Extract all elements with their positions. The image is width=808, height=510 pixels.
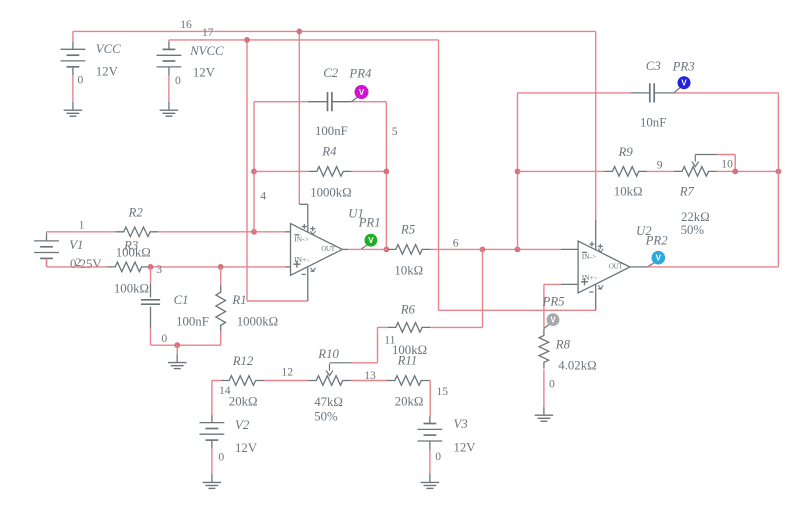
- wire C3/R9 left rail: [517, 93, 519, 250]
- probe PR5: [542, 294, 566, 328]
- wire net 2/3 (V1- / R3 / node3 / U1 IN+): [47, 266, 291, 268]
- ground below NVCC: [160, 102, 179, 117]
- svg-text:R3: R3: [123, 238, 138, 252]
- voltage source VCC 12V: [61, 42, 122, 102]
- svg-text:IN+: IN+: [582, 273, 594, 282]
- junction node3 / R1: [218, 264, 224, 270]
- svg-text:5: 5: [392, 125, 398, 138]
- svg-text:C1: C1: [174, 293, 189, 307]
- wire right rail (C3 row to U2 out): [777, 93, 779, 267]
- svg-text:12: 12: [281, 365, 293, 378]
- resistor R6 100kOhm: [388, 302, 430, 357]
- svg-text:V: V: [550, 315, 556, 324]
- ground below R8: [535, 407, 554, 422]
- wire R6 rail (net6 down to R6 row): [378, 249, 483, 362]
- svg-text:0: 0: [218, 450, 224, 463]
- svg-text:12V: 12V: [96, 64, 119, 78]
- svg-text:PR3: PR3: [672, 59, 695, 73]
- wire net 5 rail (C2/R4 right): [385, 102, 387, 250]
- wire bottom row (V2/R12/R10/R11/V3): [212, 381, 430, 416]
- svg-text:V: V: [681, 79, 687, 88]
- ground below VCC: [64, 102, 83, 117]
- svg-text:R11: R11: [397, 353, 418, 367]
- svg-text:100nF: 100nF: [315, 124, 348, 138]
- svg-text:C2: C2: [323, 66, 339, 80]
- svg-text:12V: 12V: [235, 441, 258, 455]
- svg-text:10kΩ: 10kΩ: [394, 263, 423, 277]
- svg-text:V: V: [359, 88, 365, 97]
- junction net17 / U1 V- branch: [244, 37, 250, 43]
- svg-text:10: 10: [721, 158, 733, 171]
- svg-text:R1: R1: [231, 293, 246, 307]
- ground below V2: [203, 474, 222, 489]
- svg-text:V: V: [368, 236, 374, 245]
- voltage source V3 12V (flipped): [418, 416, 477, 474]
- svg-text:0: 0: [161, 332, 167, 345]
- junction net0 / ground stub: [174, 342, 180, 348]
- wire net 17 (NVCC rail): [169, 40, 596, 310]
- voltage source V1 0.25V: [34, 233, 102, 271]
- svg-text:11: 11: [384, 334, 395, 347]
- svg-text:R12: R12: [232, 354, 254, 368]
- resistor R3 100kOhm: [107, 238, 149, 295]
- svg-text:OUT: OUT: [609, 262, 624, 270]
- op-amp U2: [578, 224, 652, 293]
- svg-text:13: 13: [364, 369, 376, 382]
- svg-text:20kΩ: 20kΩ: [229, 395, 258, 409]
- svg-text:OUT: OUT: [321, 245, 336, 253]
- junction rail / R9 row: [515, 169, 521, 175]
- svg-text:R8: R8: [555, 338, 571, 352]
- svg-text:PR1: PR1: [358, 216, 381, 230]
- ground below V3: [421, 474, 440, 489]
- svg-text:IN->: IN->: [582, 252, 597, 261]
- voltage source V2 12V: [200, 415, 258, 474]
- svg-text:4: 4: [260, 190, 266, 203]
- wire R4 row: [254, 170, 386, 172]
- probe PR3: [672, 59, 695, 92]
- wire C3 row: [518, 92, 779, 94]
- junction net16 / U1 V+ branch: [296, 29, 302, 35]
- resistor R4 1000kOhm: [309, 145, 352, 200]
- junction rail5 / R4 row: [384, 169, 390, 175]
- svg-text:50%: 50%: [314, 409, 338, 423]
- svg-text:50%: 50%: [681, 223, 705, 237]
- svg-text:>: >: [594, 276, 598, 282]
- wire U2 IN+ to R8: [544, 284, 578, 327]
- svg-text:15: 15: [437, 385, 449, 398]
- capacitor C3 10nF: [630, 59, 673, 129]
- junction R7 wiper / row: [732, 169, 738, 175]
- svg-text:V1: V1: [69, 238, 83, 252]
- probe PR2: [645, 234, 669, 267]
- wire R9/R7 row: [518, 170, 779, 172]
- resistor R11 20kOhm: [387, 353, 429, 408]
- junction row / right rail: [776, 169, 782, 175]
- svg-text:0: 0: [549, 378, 555, 391]
- svg-text:4.02kΩ: 4.02kΩ: [558, 358, 596, 372]
- junction rail4 / R4 row: [251, 169, 257, 175]
- wire C2 row: [254, 101, 386, 103]
- probe PR1: [358, 216, 381, 250]
- svg-text:12V: 12V: [454, 440, 477, 454]
- svg-text:V3: V3: [454, 417, 468, 431]
- svg-text:VCC: VCC: [96, 42, 121, 56]
- svg-text:16: 16: [180, 18, 192, 31]
- wire net 16 (VCC rail): [73, 31, 596, 250]
- svg-text:20kΩ: 20kΩ: [395, 395, 424, 409]
- svg-text:R2: R2: [128, 205, 144, 219]
- resistor R5 10kOhm: [388, 223, 430, 278]
- junction net1 / C2-R4 rail: [251, 229, 257, 235]
- op-amp U1: [291, 206, 364, 275]
- svg-text:0: 0: [78, 74, 84, 87]
- svg-text:V2: V2: [235, 418, 250, 432]
- probe PR4: [348, 66, 372, 101]
- svg-text:47kΩ: 47kΩ: [314, 395, 343, 409]
- svg-text:12V: 12V: [193, 65, 216, 79]
- svg-text:10kΩ: 10kΩ: [614, 185, 643, 199]
- resistor R8 4.02kOhm: [539, 329, 597, 407]
- svg-text:10nF: 10nF: [640, 115, 666, 129]
- svg-text:1000kΩ: 1000kΩ: [310, 185, 352, 199]
- voltage source NVCC 12V (flipped): [157, 42, 224, 102]
- junction node3 / C1: [148, 264, 154, 270]
- svg-text:22kΩ: 22kΩ: [681, 210, 710, 224]
- svg-text:PR5: PR5: [542, 294, 566, 308]
- wire net 6 (U1 out / R5 / U2 IN-): [342, 248, 578, 250]
- capacitor C1 100nF: [141, 267, 209, 345]
- svg-text:6: 6: [453, 237, 459, 250]
- wire net 4 rail (C2/R4 left): [253, 102, 255, 232]
- resistor R9 10kOhm: [604, 145, 646, 198]
- svg-text:17: 17: [202, 26, 214, 39]
- svg-text:3: 3: [156, 263, 162, 276]
- ground below C1/R1: [168, 345, 187, 368]
- svg-text:R10: R10: [317, 347, 339, 361]
- junction net6 / R6 rail: [480, 247, 486, 253]
- svg-text:1: 1: [79, 219, 85, 232]
- svg-text:9: 9: [657, 159, 663, 172]
- svg-text:14: 14: [219, 384, 231, 397]
- svg-text:NVCC: NVCC: [189, 44, 224, 58]
- wire net 0 (C1/R1 bottom): [151, 344, 221, 346]
- svg-text:R5: R5: [400, 223, 416, 237]
- svg-text:R4: R4: [321, 145, 337, 159]
- svg-text:V: V: [656, 254, 662, 263]
- resistor R2 100kOhm: [116, 205, 158, 259]
- svg-text:1000kΩ: 1000kΩ: [237, 314, 279, 328]
- wire R10 wiper to net 11: [330, 362, 378, 364]
- junction net6 / C3-R9 rail: [515, 247, 521, 253]
- potentiometer R7 22kOhm 50%: [674, 155, 716, 238]
- svg-text:R7: R7: [679, 185, 695, 199]
- svg-text:100kΩ: 100kΩ: [114, 282, 149, 296]
- svg-text:R6: R6: [400, 302, 416, 316]
- junction rail5 / U1 out row: [384, 247, 390, 253]
- svg-text:100nF: 100nF: [176, 314, 209, 328]
- svg-text:IN->: IN->: [294, 235, 309, 244]
- svg-text:R9: R9: [618, 145, 634, 159]
- svg-text:PR2: PR2: [645, 234, 669, 248]
- resistor R12 20kOhm: [221, 354, 263, 409]
- svg-text:PR4: PR4: [348, 66, 372, 80]
- wire R7 wiper loop: [695, 155, 735, 172]
- resistor R1 1000kOhm: [216, 267, 278, 345]
- svg-text:IN+: IN+: [294, 255, 306, 264]
- svg-text:>: >: [306, 259, 310, 265]
- svg-text:0: 0: [175, 74, 181, 87]
- wire U2 output row: [630, 266, 779, 268]
- capacitor C2 100nF: [308, 66, 351, 138]
- potentiometer R10 47kOhm 50%: [308, 347, 350, 424]
- wire net 1 (V1+ / R2 / U1 IN-): [47, 232, 291, 234]
- svg-text:C3: C3: [646, 59, 661, 73]
- svg-text:0: 0: [435, 450, 441, 463]
